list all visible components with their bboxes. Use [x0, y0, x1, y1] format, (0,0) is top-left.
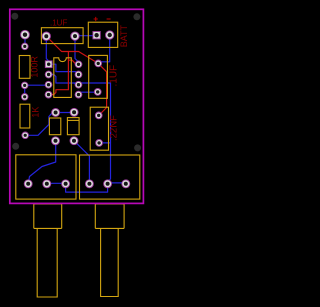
- pad C1 left: [42, 32, 50, 40]
- wire stub to pin6: [74, 83, 79, 85]
- pad BATT square plus: [93, 32, 100, 39]
- pad .1UF bottom: [94, 89, 101, 96]
- wire 1UF pad2 to IC pin8: [75, 36, 79, 64]
- potentiometer B body: [80, 155, 140, 199]
- pad IC pin4: [45, 91, 52, 98]
- pad 100R top: [22, 43, 29, 50]
- wire 100R bottom to 1K top: [24, 85, 26, 96]
- pad .22NF top: [95, 112, 102, 119]
- pad C1 right: [71, 32, 79, 40]
- pads: [21, 30, 130, 188]
- wire BATT round pad to .1UF top: [98, 35, 110, 63]
- board outline: [10, 9, 144, 203]
- wire 1K bottom to middle row top: [25, 113, 55, 136]
- wire R top A to B link: [56, 112, 75, 114]
- pad pot B 5: [104, 180, 112, 188]
- pad 1K bottom: [22, 132, 29, 139]
- wire IC pin1 to pin7 staircase: [49, 64, 79, 74]
- svg-text:.1UF: .1UF: [108, 65, 119, 87]
- svg-text:.22NF: .22NF: [109, 115, 120, 141]
- pad wire P1: [21, 30, 30, 39]
- potentiometer A bushing: [34, 204, 62, 229]
- pad 100R bottom: [21, 82, 28, 89]
- pad R3 bottom: [52, 137, 60, 145]
- pad pot A 2: [43, 180, 51, 188]
- capacitor .1UF body right: [89, 55, 108, 98]
- wire branch to IC pin8: [68, 60, 78, 64]
- minus mark: [107, 18, 111, 20]
- resistor 1K body: [20, 104, 30, 128]
- svg-text:.1UF: .1UF: [50, 19, 67, 28]
- plus mark: [94, 17, 98, 21]
- potentiometer A shaft: [34, 228, 62, 297]
- labels (red silk text): [29, 19, 129, 141]
- wire bus branch down inside IC: [49, 52, 69, 95]
- wire IC pin2 to pin6 and down right side: [49, 75, 111, 184]
- potentiometer B shaft: [95, 228, 124, 296]
- pad .1UF top: [95, 60, 102, 67]
- wire middle A bottom to pot A pad1: [28, 141, 56, 184]
- pad IC pin2: [45, 71, 52, 78]
- svg-text:1K: 1K: [30, 107, 40, 118]
- IC U1 DIP-8 body with notch: [54, 58, 72, 98]
- wire 1UF pad2 to BATT square pad: [75, 35, 97, 37]
- resistor R3 body: [49, 118, 60, 135]
- wire pot A pad3 to pot B pad5: [66, 184, 108, 192]
- pad .22NF bottom: [96, 140, 103, 147]
- wire pot A bridge pad2-pad3: [47, 182, 66, 184]
- diode D1 band: [67, 119, 79, 121]
- pad IC pin8: [75, 61, 82, 68]
- silkscreen (yellow): [16, 22, 140, 297]
- capacitor .22NF body: [90, 107, 108, 150]
- resistor 100R body: [19, 56, 30, 79]
- wire pad link to 100R top: [24, 35, 26, 47]
- mounting hole top-left: [11, 13, 18, 20]
- svg-text:BATT: BATT: [119, 24, 129, 47]
- svg-text:100R: 100R: [29, 56, 39, 78]
- wire 100R bottom to IC pin3: [25, 84, 49, 86]
- wire IC pin5 to .1UF bottom: [79, 92, 98, 95]
- wire 1UF pad1 to IC pin1: [46, 36, 48, 64]
- pad pot B 4: [85, 180, 93, 188]
- wire .1UF top down to .22NF top: [98, 63, 106, 115]
- connector BATT body: [88, 22, 117, 47]
- pad D1 top: [70, 108, 78, 116]
- pad IC pin6: [75, 81, 82, 88]
- potentiometer A body: [16, 155, 76, 199]
- mounting hole top-right: [133, 13, 140, 20]
- potentiometer B bushing: [95, 204, 124, 229]
- top copper traces (red): [46, 36, 106, 115]
- wire 1UF pad1 diagonal to bus: [46, 36, 98, 63]
- pad IC pin3: [45, 81, 52, 88]
- bottom copper traces (blue): [25, 35, 126, 192]
- pad D1 bottom: [70, 137, 78, 145]
- mounting hole bottom-right: [134, 144, 141, 151]
- wire .22NF bottom joining right vertical: [99, 142, 110, 144]
- pad IC pin1 square: [45, 61, 52, 68]
- mounting hole bottom-left: [12, 143, 19, 150]
- diode D1 body: [67, 118, 79, 135]
- pad pot B 6: [122, 180, 130, 188]
- wire middle B bottom to pot B pad4: [74, 141, 89, 184]
- pad pot A 1: [24, 180, 32, 188]
- wire pot B bridge pad5-pad6: [108, 182, 126, 184]
- capacitor C1 .1UF body: [41, 28, 83, 44]
- pad R3 top: [52, 109, 60, 117]
- pad pot A 3: [62, 180, 70, 188]
- pad IC pin5: [75, 91, 82, 98]
- pad IC pin7: [75, 71, 82, 78]
- pad BATT round minus: [106, 31, 114, 39]
- pad 1K top: [21, 94, 28, 101]
